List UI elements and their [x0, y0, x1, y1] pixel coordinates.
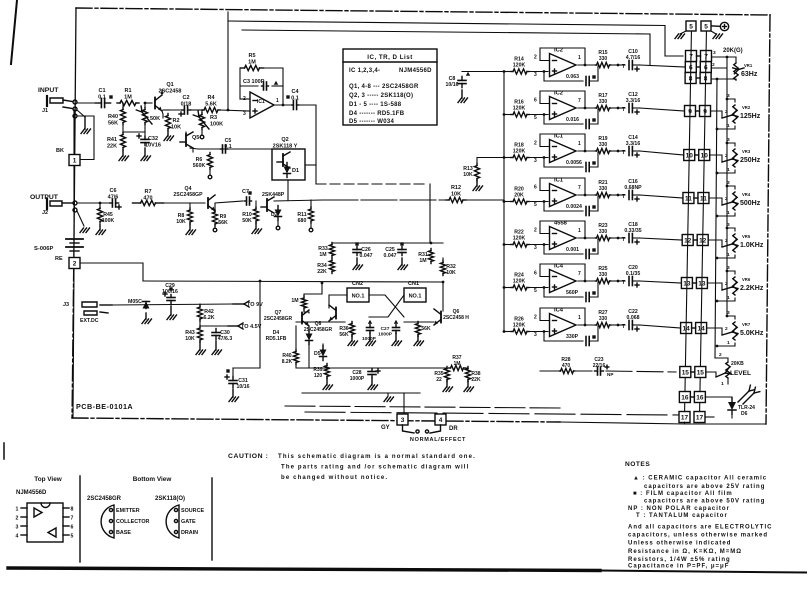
svg-text:C27: C27 [381, 326, 390, 332]
junction box 11a [683, 193, 694, 204]
battery S-006P [34, 239, 83, 252]
caution line 3 [281, 475, 388, 481]
svg-text:EXT.DC: EXT.DC [80, 318, 99, 324]
svg-text:DR: DR [449, 426, 458, 432]
svg-text:6: 6 [71, 525, 74, 531]
op-amp 4558 band 5 [550, 221, 577, 250]
slider VR2 125Hz [711, 93, 738, 130]
fet Q2 [277, 152, 290, 168]
svg-text:2: 2 [725, 326, 728, 332]
svg-text:Q1, 4-8 --- 2SC2458GR: Q1, 4-8 --- 2SC2458GR [349, 84, 419, 90]
box Q2 [272, 149, 316, 200]
svg-text:5: 5 [704, 23, 708, 30]
svg-text:IC1: IC1 [257, 99, 265, 105]
svg-text:2.2KHz: 2.2KHz [740, 285, 764, 292]
svg-text:56K: 56K [339, 332, 349, 338]
svg-text:Bottom View: Bottom View [133, 476, 172, 483]
svg-text:1M: 1M [124, 94, 132, 100]
wire drop x430 [429, 184, 431, 243]
wire emitter row [163, 109, 180, 111]
wire input to C1 [77, 102, 96, 104]
resistor R37b [414, 322, 431, 346]
diode D3 [128, 299, 152, 324]
svg-text:And all capacitors are ELECTRO: And all capacitors are ELECTROLYTIC [628, 525, 772, 531]
notes line 4 [644, 499, 765, 505]
svg-text:0.001: 0.001 [566, 247, 579, 253]
svg-text:8: 8 [71, 507, 74, 513]
capacitor C26 [353, 242, 373, 269]
svg-text:20K: 20K [514, 193, 524, 199]
svg-text:0.68NP: 0.68NP [624, 185, 642, 191]
label 2.2KHz [740, 285, 764, 292]
wire feedback band 4 [540, 178, 586, 196]
op-amp IC1 [250, 92, 274, 118]
capacitor C10 [617, 49, 641, 71]
resistor R10 [242, 201, 261, 234]
svg-text:250Hz: 250Hz [740, 157, 761, 164]
svg-text:56K: 56K [218, 220, 228, 226]
capacitor C28 [350, 368, 380, 390]
svg-text:D1: D1 [292, 168, 299, 174]
junction box 9b [696, 106, 711, 117]
pin labels band 2 [534, 98, 581, 122]
svg-text:Capacitance in P=PF, μ=μF: Capacitance in P=PF, μ=μF [628, 564, 729, 570]
ground input sleeve [77, 110, 91, 134]
notes line 3 [633, 491, 733, 497]
transistor Q3 [261, 197, 274, 213]
junction box 6b [696, 62, 711, 73]
label NOTES [625, 461, 650, 468]
svg-text:T: T [622, 107, 625, 113]
label PCB [76, 402, 133, 411]
wire left rail [73, 110, 74, 418]
switch box 3 [397, 414, 408, 425]
svg-text:D2: D2 [271, 212, 278, 218]
svg-text:BK: BK [56, 148, 64, 154]
svg-text:120K: 120K [513, 236, 526, 242]
svg-text:22K: 22K [317, 269, 327, 275]
wire ff bottom rail [296, 364, 447, 368]
svg-text:IC 1,2,3,4-: IC 1,2,3,4- [349, 68, 380, 74]
wire ff top rail [332, 242, 443, 245]
svg-text:22K: 22K [107, 143, 117, 149]
pin 2 IC1 [240, 96, 250, 102]
wire from switch 2 [80, 263, 143, 281]
diode D2 [271, 206, 282, 230]
label 125Hz [740, 113, 761, 120]
capacitor C13 feedback [543, 152, 598, 172]
wire IC1 out [274, 104, 290, 107]
svg-text:15: 15 [682, 369, 690, 376]
svg-text:47/6.3: 47/6.3 [218, 336, 233, 342]
svg-text:capacitors, unless otherwise m: capacitors, unless otherwise marked [628, 533, 768, 539]
svg-text:J1: J1 [42, 108, 48, 114]
pin 3 IC1 [243, 111, 246, 117]
svg-text:3: 3 [534, 245, 537, 251]
svg-text:47/6: 47/6 [108, 194, 119, 200]
caution line 2 [281, 465, 469, 471]
label INPUT [38, 87, 59, 94]
label NORMAL EFFECT [410, 437, 466, 443]
label 2SK118 [155, 496, 185, 502]
junction box 13b [692, 278, 707, 289]
svg-text:1: 1 [276, 98, 279, 104]
svg-text:D5 ------- W034: D5 ------- W034 [349, 119, 395, 125]
svg-text:Q2: Q2 [281, 137, 288, 143]
svg-text:330: 330 [599, 99, 608, 105]
svg-text:D1 - 5 ---- 1S-588: D1 - 5 ---- 1S-588 [349, 102, 402, 108]
label CN2 [352, 281, 363, 287]
svg-text:2: 2 [534, 141, 537, 147]
svg-text:■ : FILM capacitor All film: ■ : FILM capacitor All film [633, 491, 733, 497]
svg-text:1000P: 1000P [378, 332, 393, 338]
svg-text:5: 5 [689, 23, 693, 30]
page left-edge scan artifact [4, 0, 17, 459]
switch box 4 [435, 414, 446, 425]
label CN1 [408, 281, 419, 287]
resistor R26 [503, 317, 548, 335]
svg-text:10K: 10K [176, 219, 186, 225]
svg-text:capacitors are above 50V ratin: capacitors are above 50V rating [644, 499, 765, 505]
capacitor C14 [617, 135, 641, 157]
svg-text:2: 2 [534, 228, 537, 234]
label VR6 [742, 277, 751, 282]
notes line 10 [628, 549, 742, 555]
capacitor C27 [378, 320, 401, 346]
svg-text:50K: 50K [242, 218, 252, 224]
svg-text:C4: C4 [291, 89, 299, 95]
wire band 3 to box [640, 151, 684, 155]
wire Q1 emitter [162, 110, 170, 118]
svg-text:1: 1 [578, 141, 581, 147]
svg-text:2SC2458: 2SC2458 [159, 88, 182, 94]
junction box 15a [680, 367, 691, 378]
svg-text:2SC2458GR: 2SC2458GR [304, 327, 333, 333]
svg-text:T: T [622, 324, 625, 330]
pin 1 IC1 [276, 98, 279, 104]
pin labels band 7 [534, 315, 581, 339]
junction box 5a [686, 21, 696, 31]
resistor R41 [107, 124, 145, 161]
wire Q4 out [215, 201, 243, 211]
svg-text:Unless otherwise indicated: Unless otherwise indicated [628, 541, 731, 547]
svg-text:3: 3 [534, 332, 537, 338]
junction box 7a [686, 51, 697, 62]
resistor R27 [578, 310, 618, 328]
label 1.0KHz [740, 242, 764, 249]
wire mid power rail [143, 280, 444, 284]
svg-text:3: 3 [243, 111, 246, 117]
svg-text:1000P: 1000P [350, 376, 365, 382]
svg-text:17: 17 [681, 414, 689, 421]
label Q3 [262, 192, 285, 198]
svg-text:10K: 10K [171, 124, 181, 130]
svg-text:3: 3 [16, 525, 19, 531]
resistor R31 [418, 249, 433, 265]
wire output to Q4 [161, 202, 205, 204]
resistor R34 [317, 259, 334, 276]
label 2SC2458GR [87, 496, 122, 502]
ground at box 5a [675, 31, 686, 39]
svg-text:7: 7 [71, 516, 74, 522]
resistor R19 [578, 136, 618, 154]
svg-text:100K: 100K [102, 218, 115, 224]
list line 3 [349, 93, 413, 99]
junction box 11b [694, 193, 709, 204]
junction box 10b [695, 150, 710, 161]
pin labels band 4 [534, 185, 581, 209]
svg-text:Q5: Q5 [192, 135, 199, 141]
node R4 out [220, 109, 250, 112]
svg-text:Top View: Top View [34, 476, 61, 483]
svg-text:1M: 1M [319, 252, 326, 258]
capacitor C25 [384, 242, 408, 269]
svg-text:0.33/35: 0.33/35 [624, 228, 641, 234]
diode D1 [284, 163, 300, 178]
wire IC1 feedback left [239, 68, 241, 99]
svg-text:6: 6 [534, 98, 537, 104]
op-amp IC2 band 1 [550, 48, 577, 77]
input jack J1 [42, 96, 77, 118]
wire pot top bus [726, 57, 728, 316]
resistor R43 [185, 326, 205, 355]
svg-text:C7: C7 [242, 189, 249, 195]
resistor R6 [193, 153, 213, 179]
wire pot bottom bus [715, 79, 717, 358]
wire ff row [296, 295, 347, 322]
capacitor C a [362, 320, 377, 346]
wire ff row2 [404, 321, 434, 323]
svg-text:0.1: 0.1 [291, 95, 299, 101]
schematic border left [72, 8, 76, 418]
svg-text:SOURCE: SOURCE [181, 508, 204, 514]
svg-text:330: 330 [599, 229, 608, 235]
wire band 7 to box [640, 325, 681, 328]
svg-text:120K: 120K [513, 279, 526, 285]
svg-text:D5: D5 [314, 351, 321, 357]
svg-text:D6: D6 [741, 411, 748, 417]
slider VR8 level [706, 352, 751, 387]
wire feedback band 2 [540, 91, 586, 109]
svg-text:2SC2458 H: 2SC2458 H [443, 315, 469, 321]
svg-text:3.3/16: 3.3/16 [626, 141, 641, 147]
label CAUTION [228, 453, 269, 460]
wire rail drop at x228 [227, 12, 229, 110]
capacitor C21 feedback [543, 326, 598, 346]
resistor R23 [578, 223, 618, 241]
svg-text:0.016: 0.016 [566, 117, 579, 123]
svg-text:EMITTER: EMITTER [116, 508, 140, 514]
TO-92 package 2SC2458GR [101, 505, 149, 538]
capacitor C22 [617, 309, 640, 331]
svg-text:1M: 1M [291, 298, 298, 304]
label VR2 [742, 105, 751, 110]
notes line 8 [628, 533, 768, 539]
svg-text:20KB: 20KB [731, 361, 744, 367]
resistor R20 [503, 187, 548, 205]
svg-text:T: T [622, 237, 625, 243]
svg-text:22K: 22K [471, 377, 481, 383]
resistor R18 [503, 143, 548, 161]
svg-text:NJM4556D: NJM4556D [399, 68, 432, 74]
svg-text:T: T [622, 194, 625, 200]
junction box 17a [679, 412, 690, 423]
wire mid bus upper [316, 183, 428, 185]
svg-text:VR1: VR1 [744, 63, 753, 68]
svg-text:125Hz: 125Hz [740, 113, 761, 120]
transistor Q4 [208, 195, 215, 211]
junction box 12a [682, 235, 693, 246]
svg-text:1: 1 [16, 507, 19, 513]
caution line 1 [278, 454, 476, 460]
transistor Q8 [304, 305, 336, 333]
DIP-8 package NJM4556D [16, 503, 74, 542]
label DR [449, 426, 458, 432]
wire ff ground row [302, 392, 420, 394]
list line 5 [349, 111, 405, 117]
slider VR1 63Hz [711, 50, 753, 80]
resistor R33 [318, 243, 334, 259]
svg-text:1: 1 [721, 381, 724, 387]
wire main input bus [503, 72, 505, 332]
wire feedback band 1 [540, 48, 586, 66]
svg-text:0.047: 0.047 [360, 253, 373, 259]
capacitor C20 [617, 265, 641, 287]
svg-text:R41: R41 [107, 137, 117, 143]
junction box 15b [691, 367, 706, 378]
svg-text:63Hz: 63Hz [741, 71, 758, 78]
label RE [55, 256, 63, 262]
junction box 8a [685, 73, 696, 84]
svg-text:5: 5 [534, 288, 537, 294]
svg-text:0.0024: 0.0024 [566, 204, 582, 210]
junction box 12b [693, 235, 708, 246]
svg-text:0.047: 0.047 [384, 253, 397, 259]
svg-text:C6: C6 [109, 188, 116, 194]
op-amp IC4 band 6 [550, 264, 577, 293]
svg-text:560K: 560K [193, 163, 206, 169]
label VR3 [742, 149, 751, 154]
svg-text:CN1: CN1 [408, 281, 419, 287]
junction box 10a [684, 150, 695, 161]
wire cross couple [369, 295, 404, 317]
svg-text:1M: 1M [248, 59, 256, 65]
resistor R30 [291, 282, 323, 310]
notes line 6 [636, 513, 728, 519]
svg-text:120K: 120K [513, 63, 526, 69]
svg-text:TO 4.5V: TO 4.5V [241, 324, 262, 330]
resistor R11 [297, 200, 313, 232]
wire drop x260 [233, 281, 260, 368]
capacitor C29 [162, 283, 178, 320]
junction box 8b [696, 73, 711, 84]
svg-text:6: 6 [534, 271, 537, 277]
capacitor C17 feedback [543, 239, 598, 259]
wire box column B [700, 31, 707, 412]
resistor R4 [191, 95, 220, 113]
capacitor C4 [286, 89, 299, 110]
capacitor C30 [212, 329, 232, 355]
wire bias rail [242, 30, 650, 65]
svg-text:VR6: VR6 [742, 277, 751, 282]
svg-text:7: 7 [578, 98, 581, 104]
svg-text:5: 5 [534, 115, 537, 121]
junction box 13a [681, 278, 692, 289]
wire feedback band 7 [540, 308, 586, 326]
notes line 12 [628, 564, 729, 570]
transistor Q7 [264, 310, 309, 326]
jack J3 EXT DC [63, 302, 112, 324]
svg-text:2SC2458GR: 2SC2458GR [264, 316, 293, 322]
capacitor C32 [137, 134, 161, 161]
svg-text:10V16: 10V16 [145, 142, 161, 148]
ground at box 5b [711, 31, 723, 39]
label 5.0KHz [740, 330, 764, 337]
label 500Hz [740, 200, 761, 207]
notes line 9 [628, 541, 731, 547]
svg-text:NP: NP [607, 372, 613, 377]
capacitor C31 [225, 368, 250, 402]
label GY [381, 425, 390, 431]
svg-text:5: 5 [71, 534, 74, 540]
svg-text:22/16: 22/16 [593, 363, 606, 369]
label 20K(G) [723, 48, 743, 54]
op-amp IC2 band 2 [550, 91, 577, 120]
relay contact box NO.1 right [404, 288, 426, 302]
wire feedback band 6 [540, 264, 586, 282]
svg-text:2: 2 [73, 260, 77, 267]
notes line 5 [628, 506, 730, 512]
svg-text:2: 2 [712, 62, 715, 68]
LED D6 [705, 385, 759, 418]
svg-text:R40: R40 [108, 114, 118, 120]
capacitor C3 [240, 79, 283, 90]
ground near sw3 [384, 393, 394, 402]
svg-text:120: 120 [314, 373, 323, 379]
svg-text:R5: R5 [248, 53, 255, 59]
svg-text:22: 22 [436, 377, 442, 383]
svg-text:0.068: 0.068 [627, 315, 640, 321]
transistor Q1 [155, 82, 181, 111]
svg-text:CN2: CN2 [352, 281, 363, 287]
notes line 2 [644, 484, 765, 490]
svg-text:GY: GY [381, 425, 390, 431]
svg-text:VR3: VR3 [742, 149, 751, 154]
svg-text:16: 16 [681, 394, 689, 401]
resistor R13 [463, 158, 504, 191]
svg-text:4: 4 [16, 534, 19, 540]
resistor R5 [241, 53, 264, 71]
svg-text:NP : NON POLAR capacitor: NP : NON POLAR capacitor [628, 506, 730, 512]
wire band 5 to box [640, 238, 682, 240]
svg-text:T: T [622, 280, 625, 286]
svg-text:1: 1 [578, 228, 581, 234]
resistor R39 [313, 364, 332, 390]
svg-text:DRAIN: DRAIN [181, 530, 198, 536]
svg-text:J3: J3 [63, 302, 69, 308]
svg-text:330: 330 [599, 142, 608, 148]
svg-text:VR4: VR4 [742, 192, 751, 197]
notes line 7 [628, 525, 772, 531]
label 250Hz [740, 157, 761, 164]
svg-text:Q1: Q1 [166, 82, 173, 88]
capacitor C11 feedback [543, 109, 598, 129]
svg-text:20K(G): 20K(G) [723, 48, 743, 54]
pin labels band 1 [534, 55, 581, 79]
resistor R36 [339, 322, 357, 346]
svg-text:470: 470 [562, 363, 571, 369]
wire to 4V5 [200, 319, 262, 330]
